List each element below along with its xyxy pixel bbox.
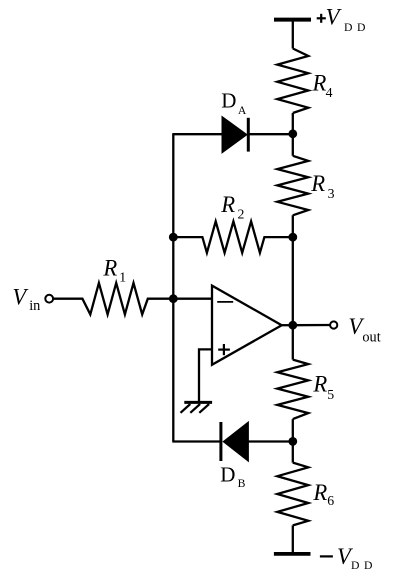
svg-text:R: R	[312, 372, 327, 397]
svg-text:R: R	[310, 171, 325, 196]
svg-text:V: V	[12, 285, 29, 310]
svg-text:V: V	[326, 5, 343, 30]
svg-text:R: R	[312, 70, 327, 95]
svg-text:B: B	[238, 477, 246, 490]
svg-text:out: out	[362, 329, 380, 345]
svg-text:5: 5	[327, 387, 334, 402]
svg-text:DD: DD	[344, 21, 370, 34]
svg-text:6: 6	[327, 493, 334, 508]
svg-text:DD: DD	[351, 559, 377, 572]
svg-text:R: R	[102, 256, 117, 281]
svg-text:2: 2	[238, 207, 245, 222]
svg-text:3: 3	[328, 186, 335, 201]
svg-text:in: in	[29, 298, 40, 314]
svg-text:4: 4	[326, 85, 333, 100]
svg-text:1: 1	[119, 270, 126, 285]
svg-text:R: R	[312, 480, 327, 505]
svg-text:D: D	[220, 462, 235, 486]
svg-text:D: D	[221, 89, 236, 113]
svg-text:A: A	[238, 104, 247, 117]
svg-text:R: R	[220, 192, 235, 217]
